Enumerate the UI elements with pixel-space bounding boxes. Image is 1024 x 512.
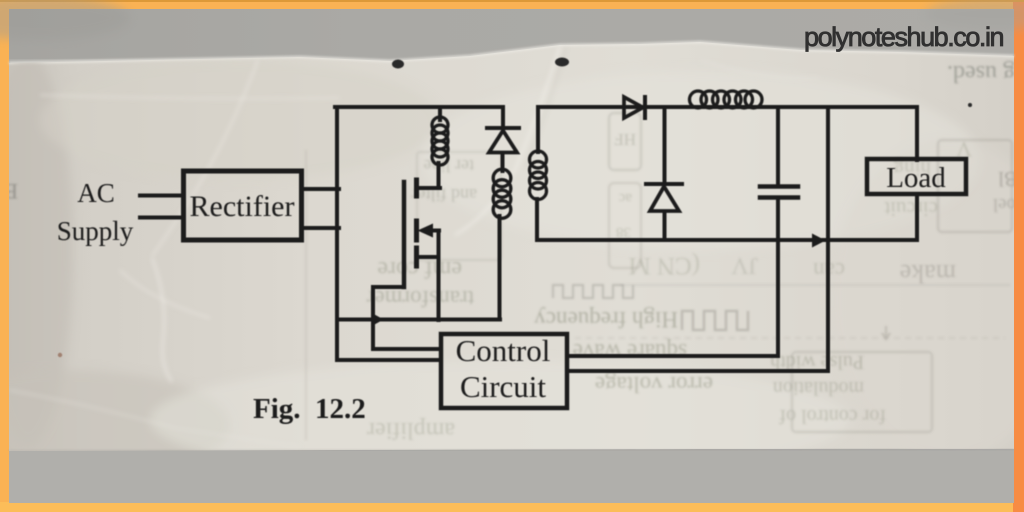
svg-text:JV: JV	[731, 252, 758, 278]
wire left DC rail	[335, 107, 339, 360]
svg-text:AC: AC	[77, 178, 115, 208]
diode D3 freewheeling	[646, 107, 682, 240]
svg-text:circuit: circuit	[884, 197, 938, 221]
wire source return rail	[337, 318, 500, 322]
transistor Q1 MOSFET	[404, 180, 440, 320]
svg-text:ac: ac	[618, 190, 632, 206]
svg-text:g used.: g used.	[947, 60, 1015, 86]
wire rectifier output bottom	[304, 226, 339, 230]
bleed-through faint mirrored text from reverse page	[3, 60, 1018, 443]
junction arrow on source rail	[371, 313, 384, 327]
wire left rail to control circuit	[337, 358, 441, 362]
diode D1 snubber	[487, 107, 519, 171]
diode D2 output rectifier	[624, 97, 645, 118]
transformer primary winding	[432, 107, 448, 188]
wire AC input top	[140, 194, 183, 198]
svg-text:Control: Control	[456, 333, 551, 368]
transformer secondary winding	[530, 107, 547, 240]
capacitor C1 output filter	[760, 107, 798, 356]
svg-text:Rectifier: Rectifier	[190, 190, 295, 223]
control circuit block	[441, 334, 567, 408]
wire primary top rail	[335, 105, 503, 109]
svg-text:HF: HF	[614, 130, 636, 149]
wire gate drive path	[373, 287, 441, 349]
rectifier block	[184, 171, 302, 240]
svg-text:amplifier: amplifier	[367, 417, 455, 443]
svg-text:transformer: transformer	[366, 286, 474, 311]
svg-text:make: make	[900, 259, 956, 288]
wire rectifier output top	[304, 187, 339, 191]
wire feedback sense from output	[826, 107, 830, 371]
load block	[867, 159, 966, 194]
inductor L1 filter choke	[690, 91, 763, 108]
svg-text:High frequency: High frequency	[534, 307, 678, 332]
wire secondary top rail	[538, 105, 917, 109]
transformer auxiliary winding	[493, 169, 511, 319]
junction arrow on bottom rail	[812, 234, 826, 248]
wire AC input bottom	[140, 216, 183, 220]
wire feedback F1 to control circuit	[569, 354, 778, 358]
svg-text:Fig. 12.2: Fig. 12.2	[253, 393, 366, 425]
svg-text:error voltage: error voltage	[595, 372, 713, 397]
svg-text:polynoteshub.co.in: polynoteshub.co.in	[804, 22, 1003, 52]
svg-text:Supply: Supply	[57, 216, 134, 246]
svg-text:modulation: modulation	[773, 377, 864, 399]
svg-text:for control of: for control of	[779, 405, 886, 427]
svg-text:Circuit: Circuit	[460, 369, 546, 404]
creases	[9, 46, 820, 447]
svg-text:Load: Load	[886, 162, 946, 194]
wire load branch top	[915, 107, 919, 160]
wire load branch bottom	[915, 194, 919, 240]
svg-text:38: 38	[616, 224, 631, 240]
wire feedback F2 to control circuit	[569, 369, 828, 373]
wire secondary bottom rail	[537, 238, 917, 242]
cut-off figure remnants at paper top edge	[58, 58, 972, 358]
svg-text:square wave: square wave	[573, 339, 687, 364]
paper sheet	[9, 42, 1014, 451]
